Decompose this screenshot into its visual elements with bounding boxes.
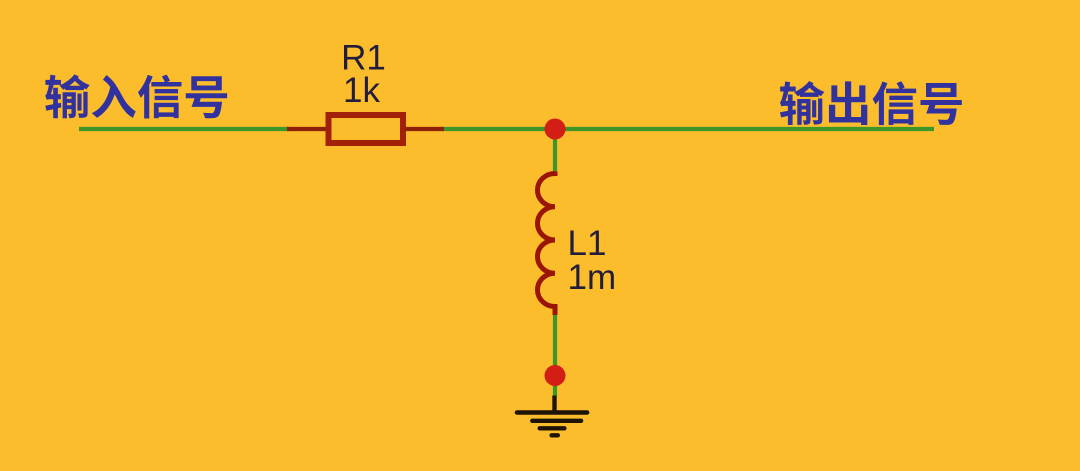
inductor L1 xyxy=(537,172,555,316)
value 1m xyxy=(568,258,617,297)
wire: junction down to inductor top xyxy=(553,127,557,172)
svg-text:1m: 1m xyxy=(568,258,617,297)
node: junction dot (wire T-junction) xyxy=(545,119,566,140)
resistor R1 xyxy=(287,115,444,143)
node: input signal label 输入信号 xyxy=(45,74,227,118)
svg-text:1k: 1k xyxy=(343,71,380,110)
node: ground junction dot xyxy=(545,365,566,386)
label R1 xyxy=(341,39,386,78)
label L1 xyxy=(568,224,607,263)
value 1k xyxy=(343,71,380,110)
wire: input segment (left green) xyxy=(79,127,290,131)
ground xyxy=(517,396,587,436)
wire: inductor bottom down to ground dot xyxy=(553,315,557,396)
node: output signal label 输出信号 xyxy=(780,81,962,125)
wire: output segment (right green) xyxy=(441,127,934,131)
